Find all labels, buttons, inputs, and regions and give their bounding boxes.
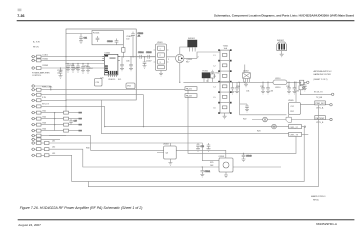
svg-text:L5: L5 — [214, 97, 216, 99]
svg-text:2: 2 — [160, 55, 161, 57]
svg-text:POWER AMPLIFIER: POWER AMPLIFIER — [32, 71, 50, 74]
capacitor C5314 with ground — [81, 64, 85, 74]
wire stair route D1 — [49, 136, 226, 158]
svg-text:U5302: U5302 — [105, 52, 111, 54]
wire PA output line — [183, 81, 306, 83]
svg-text:TX_EN: TX_EN — [316, 97, 323, 99]
wire stair route F — [49, 127, 304, 181]
svg-text:L5310: L5310 — [275, 78, 280, 80]
svg-text:C13: C13 — [84, 65, 87, 67]
shield header SH5302 (hatched connector) — [277, 40, 287, 57]
svg-text:L3: L3 — [214, 76, 216, 78]
svg-text:PA_B2: PA_B2 — [186, 95, 192, 98]
svg-text:CONTROL: CONTROL — [32, 75, 41, 77]
svg-text:C01: C01 — [84, 38, 87, 40]
buffer U5303 — [157, 143, 176, 165]
svg-text:C5305: C5305 — [146, 52, 152, 54]
net label CNTL_TX — [289, 132, 309, 136]
capacitor C5361 (inside filter box) — [96, 36, 100, 42]
svg-text:R23: R23 — [257, 131, 260, 133]
capacitor C5321 with ground — [120, 57, 124, 71]
svg-text:FL5301: FL5301 — [93, 33, 99, 35]
svg-text:C20: C20 — [96, 82, 99, 84]
connector pin P2-6 — [31, 117, 82, 120]
value labels — [42, 55, 305, 167]
svg-text:.01: .01 — [57, 72, 60, 74]
connector pin P3-2 — [31, 148, 49, 151]
svg-text:CNTL_B: CNTL_B — [316, 122, 324, 124]
svg-text:R22: R22 — [243, 119, 246, 121]
svg-text:C30: C30 — [236, 86, 239, 88]
svg-text:E5301: E5301 — [203, 71, 208, 73]
connector pin P1-1 (RF input) — [31, 41, 156, 58]
capacitor C5301 (inside shield, top-left) — [66, 34, 92, 44]
wire bottom bus — [88, 105, 318, 187]
wire module to transistor — [133, 56, 176, 58]
shield can SH5301 (dark) — [188, 38, 197, 51]
connector pin P2-10 — [31, 138, 60, 141]
svg-text:1uH: 1uH — [224, 48, 228, 50]
net label PA_BIAS2 — [185, 94, 197, 98]
ferrite E5301 (dark) — [202, 71, 210, 83]
connector pin P2-1 — [31, 88, 188, 91]
svg-text:C14: C14 — [89, 68, 92, 70]
driver module U5301 — [154, 42, 169, 71]
connector pin P2-4 — [31, 105, 105, 108]
svg-text:6816529H01-A: 6816529H01-A — [316, 222, 338, 226]
svg-text:100: 100 — [126, 39, 129, 41]
connector pin P2-2 — [31, 93, 144, 96]
svg-text:Q5302: Q5302 — [243, 71, 249, 73]
svg-text:2: 2 — [198, 57, 199, 59]
svg-text:L5301: L5301 — [43, 55, 48, 57]
connector pin P1-3 — [31, 67, 104, 70]
node CNTL_B — [291, 116, 332, 125]
svg-text:U5302-1: U5302-1 — [108, 79, 115, 81]
svg-text:R52: R52 — [290, 111, 293, 113]
wire IC feed row — [66, 63, 104, 65]
wire RF line caps row — [138, 52, 152, 59]
svg-text:R10: R10 — [216, 72, 219, 74]
capacitor C5330 with ground — [231, 82, 235, 94]
wire Q5302 drain feed — [240, 82, 287, 115]
svg-text:CNTL_9T: CNTL_9T — [290, 127, 299, 129]
transistor Q5301 — [176, 54, 193, 62]
node ANT (to antenna switch) — [307, 70, 332, 83]
op-amp IC U5302 — [102, 52, 120, 81]
header rule — [17, 20, 355, 21]
svg-text:R20: R20 — [302, 88, 305, 90]
svg-text:PWR_SET: PWR_SET — [316, 103, 326, 105]
svg-text:Q3: Q3 — [166, 153, 169, 155]
svg-text:C47: C47 — [74, 120, 77, 122]
capacitor C5312 with ground — [71, 64, 75, 73]
power control U5305 — [289, 103, 301, 115]
svg-text:August 24, 2007: August 24, 2007 — [18, 223, 41, 227]
svg-text:C06: C06 — [126, 61, 129, 63]
capacitor C5342 with ground — [240, 104, 249, 112]
capacitor C5347 with ground — [69, 119, 77, 125]
svg-text:PA_TEMP: PA_TEMP — [316, 117, 325, 120]
capacitor C5307 with ground — [143, 57, 147, 68]
svg-text:L2: L2 — [214, 66, 216, 68]
svg-text:CNTL_TX: CNTL_TX — [290, 135, 299, 137]
capacitor C5315 with ground — [86, 64, 90, 74]
capacitor C5320 (under IC) with ground — [95, 79, 103, 87]
svg-text:U5301: U5301 — [157, 42, 163, 44]
capacitor C5303 (top feed) — [131, 32, 143, 57]
svg-text:VR4: VR4 — [127, 86, 131, 88]
wire transistor base feed — [180, 47, 193, 54]
svg-text:L32: L32 — [52, 147, 55, 149]
svg-text:U5305: U5305 — [288, 100, 294, 102]
wire stair route E — [49, 149, 281, 167]
svg-text:HARMONIC FILTER: HARMONIC FILTER — [314, 73, 332, 76]
capacitor C5336 with ground — [303, 82, 307, 91]
svg-text:C5341: C5341 — [205, 171, 211, 173]
svg-text:1: 1 — [160, 48, 161, 50]
capacitor C5333 with ground — [266, 82, 270, 94]
svg-text:FL1: FL1 — [118, 79, 121, 81]
node CNTL_A — [300, 101, 332, 109]
connector pin P1-4 — [31, 71, 51, 89]
capacitor C5335 with ground — [293, 82, 297, 94]
capacitor C5340 (stair A) with ground — [242, 153, 252, 161]
transformer T5301 (ladder) — [214, 46, 232, 114]
svg-text:L33: L33 — [52, 153, 55, 155]
svg-text:.01: .01 — [138, 35, 141, 37]
resistor R5310 with ground — [211, 70, 215, 82]
svg-text:9V3_TX: 9V3_TX — [42, 103, 50, 105]
connector pin P2-7 — [31, 123, 82, 126]
wire transistor to ladder — [184, 52, 220, 58]
capacitor C5343 with ground — [196, 143, 204, 151]
connector pin P3-1 — [31, 142, 49, 145]
wire stair route B — [105, 95, 289, 127]
transistor Q5302 (pack) — [243, 65, 251, 87]
ground (ladder bottom) — [223, 113, 227, 119]
svg-text:Q5303: Q5303 — [219, 156, 225, 158]
svg-text:L1: L1 — [214, 55, 216, 57]
svg-text:L4: L4 — [214, 87, 216, 89]
svg-text:CNTL_A: CNTL_A — [316, 106, 324, 109]
svg-text:C35: C35 — [296, 91, 299, 93]
resistor R5320 (on antenna sense drop) — [299, 82, 303, 94]
capacitor C5310 with ground — [59, 68, 63, 78]
svg-text:C5360: C5360 — [107, 41, 113, 43]
svg-text:(SHEET 2 OF 2): (SHEET 2 OF 2) — [314, 79, 328, 81]
connector pin P3-3 — [31, 154, 49, 157]
connector pin P1-2 — [31, 59, 104, 62]
svg-text:7-36: 7-36 — [17, 14, 24, 18]
net label CNTL_9V3 — [289, 125, 306, 129]
svg-text:C43: C43 — [201, 146, 204, 148]
svg-text:C52: C52 — [290, 106, 293, 108]
svg-text:C5304: C5304 — [138, 52, 144, 54]
regulator U5304 (small box under IC) — [126, 83, 135, 89]
svg-text:R5303: R5303 — [43, 65, 49, 67]
svg-text:K9.1V_TX: K9.1V_TX — [314, 92, 323, 94]
capacitor C5334 with ground — [287, 82, 291, 94]
svg-text:1: 1 — [168, 59, 169, 61]
svg-text:C20: C20 — [100, 78, 103, 80]
capacitor C5360 (inside filter box) — [107, 39, 118, 45]
drawing number MAEPF — [311, 195, 326, 201]
svg-text:ANTENNA SWITCH /: ANTENNA SWITCH / — [314, 70, 332, 73]
svg-text:R42: R42 — [43, 116, 46, 118]
filter box FL5301 (inner top) — [92, 31, 123, 45]
capacitor C5331 with ground — [235, 82, 239, 94]
svg-text:C5311: C5311 — [69, 65, 74, 67]
connector pin P2-9 — [31, 134, 66, 137]
svg-text:R5301: R5301 — [43, 58, 49, 60]
svg-text:C5307: C5307 — [146, 61, 152, 63]
wire stair route D2 — [49, 143, 219, 161]
wire rows bus — [54, 113, 56, 131]
capacitor C5304 (series on RF line) — [140, 55, 142, 59]
connector pin P2-8 — [31, 129, 82, 132]
svg-text:R41: R41 — [43, 110, 46, 112]
transistor Q5306 (pass) — [272, 124, 277, 129]
svg-text:PWR_CNTL: PWR_CNTL — [42, 87, 52, 89]
svg-text:SH5301: SH5301 — [188, 38, 195, 40]
svg-text:L6: L6 — [214, 108, 216, 110]
svg-text:L31: L31 — [52, 141, 55, 143]
svg-text:C34: C34 — [286, 86, 289, 88]
svg-text:C31: C31 — [246, 91, 249, 93]
connector pin P2-5 — [31, 111, 82, 114]
svg-text:R17: R17 — [186, 62, 189, 64]
node K9_1 (keyed 9V out) — [301, 92, 334, 99]
wire stair route C — [101, 100, 288, 134]
wire stair route A — [188, 90, 296, 154]
svg-text:3: 3 — [160, 62, 161, 64]
svg-text:MAEPF-27828-O: MAEPF-27828-O — [311, 195, 326, 198]
connector pin P2-3 — [31, 97, 66, 102]
transistor Q5305 (pass) — [252, 117, 286, 122]
transistor Q5303 (power control) — [219, 156, 234, 178]
svg-text:R43: R43 — [43, 122, 46, 124]
ground (module U5301) — [159, 71, 163, 77]
svg-text:B+ 9.3V: B+ 9.3V — [33, 41, 41, 43]
capacitor C5306 with ground — [129, 57, 133, 71]
svg-text:L5310: L5310 — [275, 87, 280, 89]
resistor R5302 (on drop from filter box) — [122, 36, 132, 57]
capacitor C5332 with ground — [261, 82, 265, 94]
shield box SH5300 (around input stage) — [66, 29, 136, 100]
inductor L5310 (stripline) — [273, 78, 287, 85]
svg-text:U5303: U5303 — [163, 144, 169, 146]
capacitor C5311 with ground — [66, 64, 70, 73]
svg-text:R25: R25 — [210, 162, 213, 164]
svg-text:C32: C32 — [260, 86, 263, 88]
capacitor C5305 (series on RF line) — [148, 55, 150, 59]
wire transistor collector drop — [179, 63, 181, 83]
svg-text:SH5302: SH5302 — [277, 40, 284, 42]
svg-text:R30: R30 — [86, 148, 89, 150]
net label PA_BIAS1 — [185, 87, 197, 91]
capacitor C5341 (on mid bus) with ground — [200, 167, 210, 177]
svg-text:C5340: C5340 — [246, 155, 252, 157]
svg-text:REV A: REV A — [313, 199, 319, 202]
svg-text:9.3V: 9.3V — [42, 97, 47, 99]
svg-text:L2: L2 — [206, 81, 208, 83]
capacitor C5344 with ground — [207, 143, 211, 151]
svg-text:C33: C33 — [270, 91, 273, 93]
svg-text:PA_B1: PA_B1 — [186, 88, 192, 91]
svg-text:RF_IN: RF_IN — [33, 47, 39, 49]
svg-text:R44: R44 — [43, 128, 46, 130]
main vertical bus — [65, 100, 67, 113]
svg-text:Figure 7-26. HUD4022A RF Power: Figure 7-26. HUD4022A RF Power Amplifier… — [20, 206, 143, 210]
capacitor C5313 with ground — [76, 64, 80, 73]
svg-text:Schematics, Component Location: Schematics, Component Location Diagrams,… — [214, 14, 354, 18]
inductor L5311 (before antenna tap) — [296, 80, 304, 102]
svg-text:C12: C12 — [74, 68, 77, 70]
transistor Q5304 — [286, 114, 291, 122]
footer rule — [18, 219, 355, 220]
